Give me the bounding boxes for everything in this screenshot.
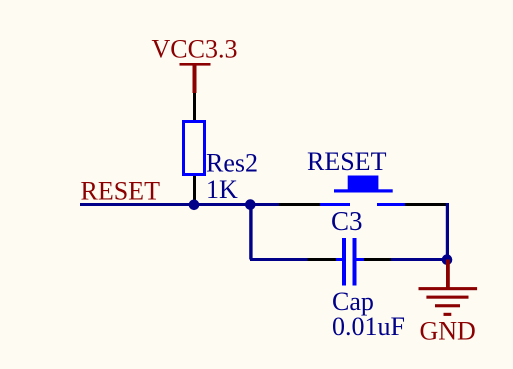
junction node C (ground node) bbox=[442, 254, 453, 265]
svg-text:RESET: RESET bbox=[81, 176, 161, 205]
capacitor C3 pin 2 bbox=[364, 258, 391, 261]
wire: right vertical (switch to ground node) bbox=[446, 203, 449, 260]
resistor R1 body (Res2 1K) bbox=[184, 122, 205, 175]
junction node B bbox=[245, 199, 256, 210]
wire: bottom row right bbox=[391, 258, 447, 261]
svg-text:VCC3.3: VCC3.3 bbox=[152, 35, 238, 64]
switch S1 contact right bbox=[377, 203, 405, 206]
capacitor C3 plates bbox=[342, 238, 357, 286]
resistor R1 pin 1 (bottom lead) bbox=[193, 176, 196, 204]
wire: bottom row left bbox=[250, 258, 308, 261]
capacitor C3 pin 1 bbox=[308, 258, 337, 261]
resistor R1 pin 2 (top lead) bbox=[193, 93, 196, 120]
capacitor C3 lead left bbox=[336, 258, 342, 261]
svg-text:RESET: RESET bbox=[307, 147, 387, 176]
switch S1 contact left bbox=[320, 203, 350, 206]
svg-text:1K: 1K bbox=[206, 175, 238, 204]
svg-text:GND: GND bbox=[420, 317, 476, 346]
wire: node B down to capacitor row bbox=[249, 205, 252, 260]
wire: RESET horizontal bbox=[80, 203, 279, 206]
capacitor C3 lead right bbox=[357, 258, 365, 261]
svg-text:Res2: Res2 bbox=[206, 149, 258, 178]
ground GND stem bbox=[446, 260, 450, 291]
switch S1 button cap bbox=[348, 176, 379, 191]
switch S1 actuator bar bbox=[334, 189, 393, 192]
switch S1 pin 1 bbox=[279, 203, 320, 206]
ground GND bars bbox=[419, 287, 478, 316]
svg-text:C3: C3 bbox=[331, 206, 363, 236]
power port VCC3.3 bar symbol bbox=[180, 63, 211, 93]
svg-text:0.01uF: 0.01uF bbox=[332, 312, 405, 341]
switch S1 pin 2 bbox=[405, 203, 447, 206]
junction node A (resistor to RESET wire) bbox=[189, 200, 200, 211]
